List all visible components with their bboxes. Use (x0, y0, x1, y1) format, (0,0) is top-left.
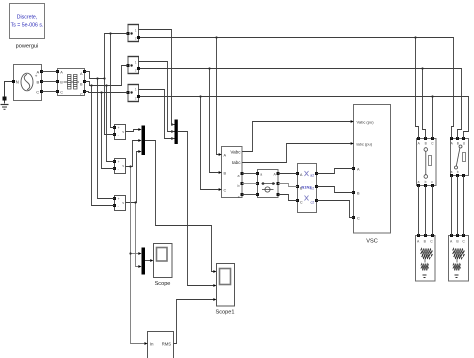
wire branch to Mux3 input 1 (131, 253, 139, 255)
current measurement CM3 (127, 85, 141, 102)
wire V-I c to breaker c (242, 194, 258, 196)
wire phase C to CM3 (85, 92, 129, 93)
wire VM2 output to Mux1 input 2 (126, 141, 139, 167)
wire chain2 breaker a to load2 A (451, 176, 453, 236)
svg-text:Vabc: Vabc (230, 149, 241, 154)
wire breaker B to transformer B (278, 184, 298, 187)
wire Vb tap down to Mux3 input 2 (136, 203, 139, 267)
svg-text:B: B (425, 142, 427, 146)
wire chain1 breaker a to load1 A (418, 186, 420, 236)
svg-text:N1N2: N1N2 (301, 185, 312, 190)
wire drop to V-I measurement A (217, 38, 219, 155)
wire transformer c2 to VSC C (317, 201, 354, 218)
wire Iabc to VSC input 2 (242, 144, 351, 163)
svg-text:a: a (418, 180, 420, 184)
three-phase V-I measurement block (219, 147, 244, 199)
WIRES_START (42, 30, 469, 344)
wire chain1 breaker c to load1 C (432, 186, 434, 236)
wire Mux1 output to Scope1 input 1 (145, 141, 214, 272)
wire source C to RLC C (42, 91, 58, 93)
three-phase breaker B2 (vertical, chain 1) (417, 137, 437, 187)
svg-text:+: + (118, 126, 120, 130)
current measurement CM2 (127, 57, 141, 74)
svg-text:B: B (37, 79, 40, 84)
mux Mux3 (138, 248, 145, 275)
wire chain1 breaker b to load1 B (425, 186, 427, 236)
wire breaker C to transformer C (278, 195, 298, 201)
three-phase RLC load L2 (449, 234, 469, 281)
svg-text:Vabc (pu): Vabc (pu) (357, 119, 375, 124)
svg-text:+: + (118, 197, 120, 201)
wire source A to RLC A (42, 71, 58, 73)
svg-text:Scope: Scope (155, 281, 171, 287)
svg-text:A: A (37, 69, 40, 74)
svg-text:2: 2 (135, 37, 137, 41)
svg-text:C: C (357, 216, 360, 220)
wire Vabc to VSC input 1 (242, 122, 351, 152)
svg-text:C: C (224, 189, 227, 193)
svg-text:b: b (238, 184, 240, 188)
wire CM3 signal to Mux2 input 3 (139, 90, 175, 139)
three-phase transformer T1 (296, 164, 318, 213)
wire phase B main line to chain2 breaker B (140, 69, 462, 139)
voltage measurement VM2 (113, 159, 126, 174)
svg-text:a: a (238, 174, 240, 178)
svg-text:2: 2 (135, 97, 137, 101)
wire chain2 breaker c to load2 C (463, 176, 465, 236)
wire tap A to VM1 minus (105, 79, 115, 135)
svg-text:Iabc: Iabc (232, 160, 241, 165)
svg-text:C: C (60, 90, 63, 94)
wire source B to RLC B (42, 81, 58, 83)
wire V-I b to breaker b (242, 183, 258, 185)
wire tap C to VM2 minus (102, 93, 115, 169)
wire RMS output to Scope1 input 3 (174, 300, 214, 344)
svg-text:labc (pu): labc (pu) (357, 141, 373, 146)
ground G1 (1, 82, 14, 110)
three-phase breaker B3 (vertical, chain 2, open) (450, 137, 469, 177)
svg-text:b: b (425, 180, 427, 184)
mux Mux2 (171, 120, 178, 145)
wire tap B to VM3 minus (92, 86, 115, 206)
three-phase RLC load L1 (416, 234, 436, 281)
wire tap B to VM2 plus (107, 86, 115, 162)
wire drop to V-I measurement C (201, 97, 219, 190)
wire CM1 signal to Mux2 input 1 (139, 30, 175, 125)
svg-text:N: N (16, 80, 19, 85)
wire Mux3 output to Scope (145, 260, 150, 262)
scope Scope (150, 244, 172, 288)
svg-text:Ts = 5e-006 s.: Ts = 5e-006 s. (11, 23, 44, 29)
three-phase source block V1 (12, 65, 43, 101)
mux Mux1 (138, 126, 145, 156)
wire CM2 signal to Mux2 input 2 (139, 62, 175, 132)
voltage measurement VM3 (113, 196, 126, 211)
current measurement CM1 (127, 25, 141, 42)
wire drop to chain1 breaker A (416, 38, 419, 139)
svg-text:RMS: RMS (162, 341, 172, 346)
svg-text:Discrete,: Discrete, (17, 15, 37, 21)
svg-text:a: a (451, 170, 453, 174)
svg-text:1: 1 (135, 88, 137, 92)
scope Scope1 (213, 264, 234, 316)
svg-text:2: 2 (135, 69, 137, 73)
svg-text:1: 1 (135, 61, 137, 65)
svg-text:c: c (238, 195, 240, 199)
svg-text:b: b (457, 170, 459, 174)
svg-text:+: + (118, 160, 120, 164)
svg-text:Scope1: Scope1 (216, 310, 235, 316)
svg-text:-: - (118, 133, 119, 137)
svg-text:B: B (457, 141, 459, 145)
svg-text:C: C (36, 89, 39, 94)
powergui block (10, 4, 45, 50)
svg-text:-: - (118, 204, 119, 208)
wire phase C main line to chain2 breaker C (140, 97, 469, 139)
svg-text:c2: c2 (311, 200, 315, 204)
wire Mux2 output to Scope1 input 2 (178, 132, 214, 286)
wire Va tap down to RMS input (131, 167, 145, 344)
VSC control block (351, 105, 391, 245)
svg-text:C: C (300, 200, 303, 204)
three-phase breaker B1 (256, 170, 280, 198)
voltage measurement VM1 (113, 125, 126, 140)
wire phase A riser to CM1 (85, 34, 129, 79)
wire drop to chain1 breaker C (432, 97, 434, 139)
wire tap A to VM1 plus (111, 34, 115, 128)
wire transformer b2 to VSC B (317, 187, 354, 193)
wire chain2 breaker b to load2 B (457, 176, 459, 236)
wire breaker A to transformer A (278, 173, 298, 175)
svg-text:v: v (122, 201, 124, 205)
svg-text:v: v (122, 130, 124, 134)
svg-text:VSC: VSC (366, 239, 378, 245)
wire VM3 output to Mux1 input 3 (126, 152, 139, 203)
svg-text:powergui: powergui (16, 44, 39, 50)
three-phase series RLC branch Z1 (56, 69, 86, 97)
wire V-I a to breaker a (242, 173, 258, 175)
wire tap A to VM3 plus (98, 79, 115, 199)
svg-text:C: C (80, 92, 83, 96)
wire drop to chain1 breaker B (423, 69, 426, 139)
RMS block (144, 332, 173, 358)
wire transformer a2 to VSC A (317, 169, 354, 174)
wire drop to V-I measurement B (210, 69, 219, 173)
wire phase B riser to CM2 (85, 66, 129, 86)
wire phase A main line to chain2 breaker A (140, 38, 454, 139)
svg-text:1: 1 (135, 29, 137, 33)
svg-text:v: v (122, 164, 124, 168)
wire VM1 output to Mux1 input 1 (126, 130, 139, 132)
svg-text:a: a (260, 172, 262, 176)
svg-text:a2: a2 (310, 173, 314, 177)
svg-text:-: - (118, 167, 119, 171)
